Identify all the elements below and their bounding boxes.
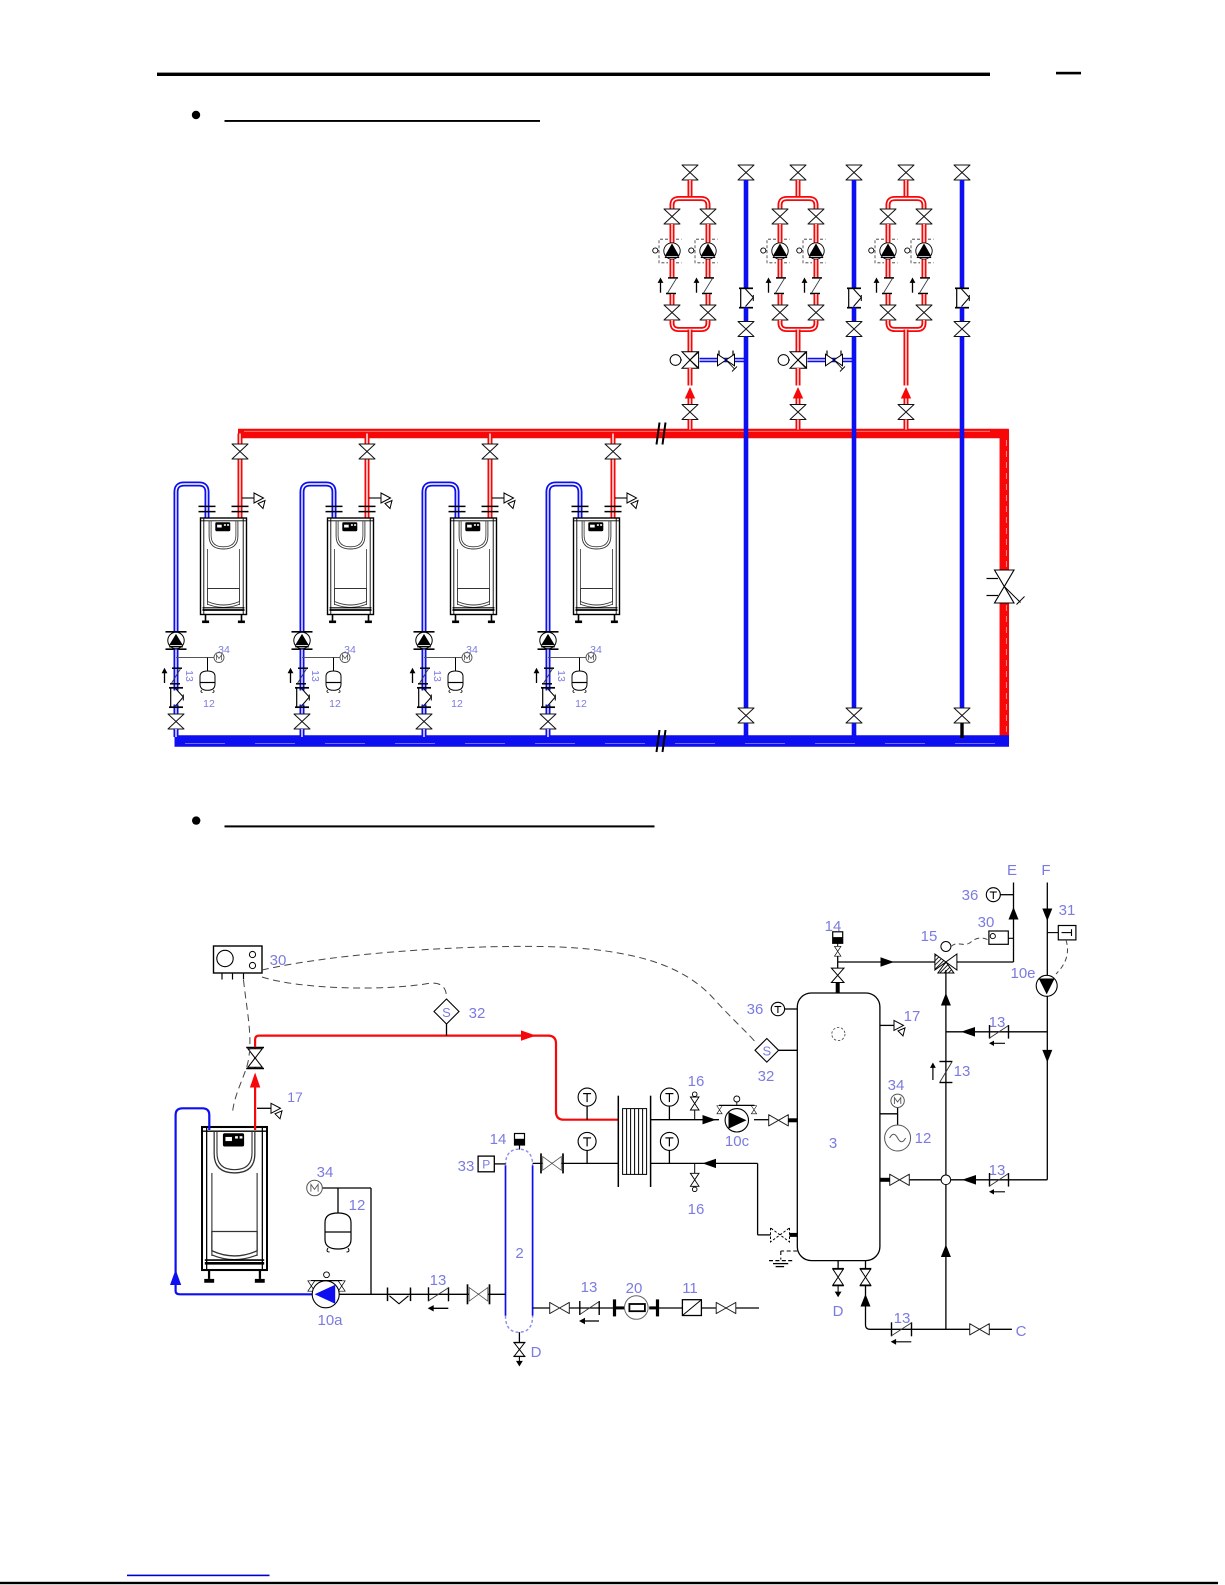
boiler 1 non-return valve xyxy=(174,705,179,715)
svg-text:12: 12 xyxy=(203,698,215,710)
valve into tank 3 right xyxy=(890,1174,910,1185)
circuit 2 balancing valve xyxy=(826,351,846,372)
svg-text:33: 33 xyxy=(458,1158,475,1175)
svg-text:17: 17 xyxy=(904,1008,921,1025)
svg-text:34: 34 xyxy=(317,1164,334,1181)
circuit 3 check valves xyxy=(874,278,894,294)
boiler return pipe blue xyxy=(176,1108,312,1294)
svg-text:32: 32 xyxy=(758,1068,775,1085)
boiler 1 return loop pipe xyxy=(176,484,207,632)
boiler 3 red riser xyxy=(488,434,493,445)
boiler 4 pump xyxy=(538,632,559,649)
boiler supply pipe red xyxy=(254,1088,256,1131)
svg-text:11: 11 xyxy=(682,1280,698,1297)
circuit 1 flow arrow xyxy=(685,387,695,399)
boiler 1 body xyxy=(201,518,247,623)
separator drain D xyxy=(518,1332,520,1342)
heat exchanger xyxy=(617,1096,619,1187)
circuit 1 blue branch to mixing valve xyxy=(700,358,747,363)
circuit 3 flow arrow xyxy=(901,387,911,399)
circuit 3 lower supply valve xyxy=(898,405,914,420)
red flow arrow right xyxy=(521,1030,536,1040)
svg-text:34: 34 xyxy=(888,1077,905,1094)
line tank top to E xyxy=(838,961,936,963)
circuit 2 branch valves xyxy=(772,209,788,224)
boiler 3 motor line and M 34 xyxy=(424,657,462,659)
red manifold right drop pipe xyxy=(1000,430,1010,571)
valve after pump 10c xyxy=(769,1115,789,1126)
boiler 3 pump xyxy=(414,632,435,649)
return line to separator xyxy=(339,1293,505,1295)
blue flow arrow up xyxy=(170,1270,181,1286)
flow arrow right xyxy=(703,1115,717,1124)
lower secondary line xyxy=(651,1162,758,1164)
svg-text:13: 13 xyxy=(581,1279,598,1296)
boiler 2 supply valve xyxy=(359,444,375,459)
boiler 1 safety valve xyxy=(242,497,254,499)
meter row line xyxy=(533,1307,550,1309)
boiler 2 expansion vessel 12 xyxy=(326,671,341,693)
dashed control line to remote sensor xyxy=(262,946,757,1044)
pipe break blue manifold xyxy=(657,730,666,752)
svg-text:16: 16 xyxy=(688,1073,705,1090)
pressure gauge 33 xyxy=(478,1156,494,1172)
circuit 3 return bottom valve xyxy=(954,708,970,723)
svg-text:13: 13 xyxy=(309,670,321,682)
red supply manifold xyxy=(238,429,1009,439)
circuit 2 check valves xyxy=(766,278,786,294)
boiler 2 motor line and M 34 xyxy=(302,657,340,659)
flow arrow left xyxy=(703,1159,717,1168)
tank 3 earth xyxy=(781,1250,798,1252)
valve after filter xyxy=(716,1302,736,1313)
boiler 1 motor line and M 34 xyxy=(176,657,214,659)
heater element 12 with motor 34 xyxy=(880,1113,898,1115)
boiler 2 unions xyxy=(326,506,343,511)
circuit 3 top supply valve xyxy=(898,165,914,180)
branch F to central riser xyxy=(946,1031,1047,1033)
circuit 2 return riser top valve xyxy=(846,165,862,180)
bottom blue link line xyxy=(127,1575,270,1577)
circuit 1 lower supply valve xyxy=(682,405,698,420)
svg-text:36: 36 xyxy=(747,1001,764,1018)
svg-text:3: 3 xyxy=(829,1135,837,1152)
boiler safety valve 17 xyxy=(257,1107,271,1109)
boiler 1 red riser xyxy=(238,434,243,445)
boiler 1 check valve 13 xyxy=(174,668,179,691)
tank 3 bottom drain D xyxy=(837,1261,839,1269)
boiler 3 non-return valve xyxy=(422,705,427,715)
boiler 4 return loop pipe xyxy=(548,484,580,632)
boiler 4 red riser xyxy=(611,434,616,445)
valve before C xyxy=(970,1324,990,1335)
svg-text:10c: 10c xyxy=(725,1133,750,1150)
heading underline 1 xyxy=(225,120,541,122)
circuit 2 top supply valve xyxy=(790,165,806,180)
end-bar valve at separator inlet xyxy=(468,1284,490,1304)
svg-text:10e: 10e xyxy=(1010,965,1035,982)
three-way valve 15 xyxy=(935,954,946,970)
vent 16 upper xyxy=(694,1110,696,1120)
line F down to tank 3 xyxy=(951,1179,1047,1181)
svg-text:34: 34 xyxy=(590,644,602,656)
svg-text:S: S xyxy=(762,1044,771,1059)
T gauge upper right xyxy=(660,1088,678,1106)
circuit 3 return valve xyxy=(954,322,970,337)
circuit 1 return riser top valve xyxy=(738,165,754,180)
thermostat box 31 xyxy=(1047,932,1058,934)
central riser from valve 15 xyxy=(945,970,947,1175)
circuit 3 return riser top valve xyxy=(954,165,970,180)
circuit 1 supply header xyxy=(688,180,693,199)
circuit 1 merge header xyxy=(672,320,708,330)
svg-text:13: 13 xyxy=(954,1063,971,1080)
circuit 2 return valve xyxy=(846,322,862,337)
flow meter 20 xyxy=(613,1299,616,1316)
svg-text:12: 12 xyxy=(349,1197,366,1214)
circuit 2 return bottom valve xyxy=(846,708,862,723)
tank 3 safety valve 17 xyxy=(880,1024,894,1026)
boiler 4 motor line and M 34 xyxy=(548,657,586,659)
circuit 1 lower branch valves xyxy=(664,305,680,320)
circuit 2 pumps xyxy=(761,239,790,263)
tank 3 left T gauge 36 xyxy=(771,1002,784,1015)
blue return manifold xyxy=(175,735,1010,746)
svg-text:34: 34 xyxy=(466,644,478,656)
boiler 1 supply valve xyxy=(232,444,248,459)
tank 3 left sensor S 32 xyxy=(755,1039,779,1063)
circuit 1 top supply valve xyxy=(682,165,698,180)
svg-text:D: D xyxy=(833,1303,844,1320)
expansion vessel 12 xyxy=(325,1213,351,1249)
circuit 1 pumps xyxy=(653,239,682,263)
control valve on supply drop xyxy=(995,570,1015,603)
svg-text:13: 13 xyxy=(183,670,195,682)
valve at separator outlet xyxy=(550,1302,570,1313)
circuit 3 pumps xyxy=(869,239,898,263)
circuit 3 lower branch valves xyxy=(880,305,896,320)
circuit 2 return non-return valve xyxy=(847,288,861,307)
pump 10c xyxy=(719,1104,755,1106)
boiler 3 check valve 13 xyxy=(422,668,427,691)
svg-text:C: C xyxy=(1016,1323,1027,1340)
boiler 3 return loop pipe xyxy=(424,484,457,632)
svg-text:20: 20 xyxy=(626,1280,643,1297)
circuit 3 branch valves xyxy=(880,209,896,224)
exchanger-separator line xyxy=(533,1162,619,1164)
red flow arrow up xyxy=(250,1073,260,1088)
circuit 2 blue branch to mixing valve xyxy=(808,358,855,363)
circuit 3 supply header xyxy=(904,180,909,199)
vent 16 lower xyxy=(694,1163,696,1173)
circuit 3 return non-return valve xyxy=(955,288,969,307)
bottom page rule xyxy=(0,1582,1218,1584)
svg-text:17: 17 xyxy=(287,1089,303,1105)
boiler 4 body xyxy=(574,518,620,623)
T gauge 36 on E xyxy=(986,888,1000,902)
circuit 1 return non-return valve xyxy=(739,288,753,307)
svg-text:E: E xyxy=(1007,862,1017,879)
bottom line to C xyxy=(866,1325,1012,1329)
boiler 2 return valve xyxy=(294,714,310,729)
svg-text:32: 32 xyxy=(469,1005,486,1022)
boiler 4 return valve xyxy=(540,714,556,729)
controller box 30 right xyxy=(989,931,1008,944)
svg-text:13: 13 xyxy=(989,1162,1006,1179)
circuit 2 flow arrow xyxy=(793,387,803,399)
boiler 4 check valve 13 xyxy=(546,668,551,691)
squiggle control line to box 30 xyxy=(951,938,989,947)
svg-text:31: 31 xyxy=(1059,902,1076,919)
circuit 2 lower supply valve xyxy=(790,405,806,420)
svg-text:12: 12 xyxy=(915,1130,932,1147)
page number dash xyxy=(1056,72,1081,75)
dashed valve into tank 3 xyxy=(771,1228,790,1242)
boiler 4 safety valve xyxy=(615,497,627,499)
boiler 2 pump xyxy=(292,632,313,649)
svg-text:30: 30 xyxy=(978,914,995,931)
svg-text:13: 13 xyxy=(989,1014,1006,1031)
svg-text:12: 12 xyxy=(329,698,341,710)
circuit 1 branch valves xyxy=(664,209,680,224)
motorised shut-off valve on supply xyxy=(246,1047,264,1049)
boiler 4 expansion vessel 12 xyxy=(572,671,587,693)
svg-text:14: 14 xyxy=(490,1131,507,1148)
svg-text:14: 14 xyxy=(825,918,842,935)
svg-text:13: 13 xyxy=(430,1272,447,1289)
svg-text:34: 34 xyxy=(218,644,230,656)
T gauge upper left xyxy=(578,1088,596,1106)
boiler 3 unions xyxy=(449,506,466,511)
svg-text:13: 13 xyxy=(431,670,443,682)
bullet 1 xyxy=(192,111,200,119)
boiler 3 expansion vessel 12 xyxy=(448,671,463,693)
boiler 2 check valve 13 xyxy=(300,668,305,691)
svg-text:16: 16 xyxy=(688,1201,705,1218)
circuit 2 supply header xyxy=(796,180,801,199)
pump 10e xyxy=(1036,975,1057,996)
boiler 2 non-return valve xyxy=(300,705,305,715)
boiler 3 return valve xyxy=(416,714,432,729)
boiler 2 safety valve xyxy=(369,497,381,499)
boiler 3 supply valve xyxy=(482,444,498,459)
dashed control line to shut-off valve xyxy=(233,980,250,1112)
boiler 2 red riser xyxy=(365,434,370,445)
circuit 1 return bottom valve xyxy=(738,708,754,723)
upper secondary line xyxy=(651,1119,719,1121)
dashed control line to sensor 32 xyxy=(262,977,447,998)
air vent 14 on separator xyxy=(515,1134,525,1150)
air vent 14 tank 3 xyxy=(833,932,843,944)
circuit 3 merge header xyxy=(888,320,924,330)
circuit 2 merge header xyxy=(780,320,816,330)
boiler 1 unions xyxy=(199,506,216,511)
tank top valve group xyxy=(836,983,840,993)
svg-text:13: 13 xyxy=(894,1310,911,1327)
separator tank 2 xyxy=(505,1165,507,1315)
svg-text:36: 36 xyxy=(962,887,979,904)
circuit 2 lower branch valves xyxy=(772,305,788,320)
bullet 2 xyxy=(192,816,200,824)
tank 3 bottom outlet xyxy=(865,1261,867,1269)
stub into tank 3 xyxy=(788,1118,797,1122)
T gauge lower left xyxy=(578,1132,596,1150)
svg-text:D: D xyxy=(531,1344,542,1361)
svg-text:12: 12 xyxy=(575,698,587,710)
svg-text:F: F xyxy=(1041,862,1050,879)
check valve after pump 10a xyxy=(388,1288,411,1304)
svg-text:2: 2 xyxy=(515,1245,523,1262)
svg-text:S: S xyxy=(442,1005,451,1020)
circuit 2 mixing valve xyxy=(778,352,807,369)
svg-text:13: 13 xyxy=(555,670,567,682)
svg-text:10a: 10a xyxy=(317,1312,343,1329)
boiler 2 return loop pipe xyxy=(302,484,334,632)
heading underline 2 xyxy=(225,825,655,827)
filter 11 xyxy=(682,1300,701,1316)
storage tank 3 xyxy=(797,993,880,1261)
boiler 4 non-return valve xyxy=(546,705,551,715)
drop to tank lower connection xyxy=(757,1163,759,1235)
circuit 1 return valve xyxy=(738,322,754,337)
circuit 1 check valves xyxy=(658,278,678,294)
circuit 1 mixing valve xyxy=(670,352,699,369)
boiler 3 safety valve xyxy=(492,497,504,499)
boiler 3 body xyxy=(451,518,497,623)
boiler 2 body xyxy=(328,518,374,623)
sensor S 32 xyxy=(434,999,459,1024)
page top rule xyxy=(157,73,990,76)
valve separator-exchanger xyxy=(541,1153,563,1173)
boiler 4 supply valve xyxy=(605,444,621,459)
boiler 4 unions xyxy=(572,506,589,511)
expansion vessel line xyxy=(322,1187,371,1189)
motor M 34 xyxy=(307,1180,323,1196)
hop crossing xyxy=(941,1175,951,1185)
circuit 1 balancing valve xyxy=(718,351,738,372)
boiler body (bottom diagram) xyxy=(202,1127,267,1283)
svg-text:12: 12 xyxy=(451,698,463,710)
T gauge lower right xyxy=(660,1132,678,1150)
boiler 1 expansion vessel 12 xyxy=(200,671,215,693)
control unit 30 xyxy=(214,946,263,973)
svg-text:P: P xyxy=(482,1158,490,1172)
pipe break red manifold xyxy=(657,423,666,445)
pump 10a xyxy=(311,1280,342,1282)
svg-text:34: 34 xyxy=(344,644,356,656)
boiler 1 pump xyxy=(166,632,187,649)
svg-text:15: 15 xyxy=(921,928,938,945)
boiler 1 return valve xyxy=(168,714,184,729)
supply header red line xyxy=(255,1036,618,1120)
